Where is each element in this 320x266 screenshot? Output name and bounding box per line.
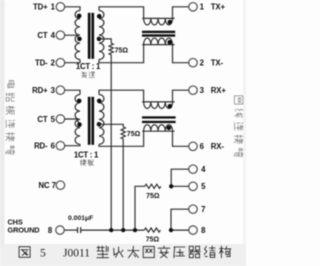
choke L2 core <box>142 116 176 123</box>
label fasong (transmit) <box>82 72 87 78</box>
transformer T1 primary winding <box>75 11 80 60</box>
svg-text:75Ω: 75Ω <box>115 48 129 55</box>
svg-text:RD+: RD+ <box>32 86 48 95</box>
node NC pin 7 (left) <box>56 181 65 190</box>
wire R1 to ground rail <box>110 55 112 230</box>
svg-text:TX-: TX- <box>211 59 224 68</box>
choke L2 bottom winding <box>142 130 174 132</box>
svg-text:CT: CT <box>37 115 47 124</box>
svg-text:J0011: J0011 <box>63 248 90 260</box>
resistor R4 75ohm <box>144 228 160 232</box>
junction pin7/8 <box>169 228 173 232</box>
L2 bottom dot <box>167 126 172 131</box>
transformer T2 core <box>88 97 94 145</box>
svg-text:1CT : 1: 1CT : 1 <box>74 151 99 160</box>
node pin 4 (right) <box>189 165 198 174</box>
svg-text:TD-: TD- <box>35 59 48 68</box>
svg-text:NC: NC <box>39 181 50 190</box>
svg-text:5: 5 <box>40 248 46 260</box>
wire RD+ to T2 primary top <box>65 90 80 94</box>
resistor R1 75ohm <box>109 43 113 55</box>
T2 secondary CT junction <box>97 122 102 127</box>
wire R3 to ground rail <box>135 186 145 230</box>
node pin 7 (right) <box>189 205 198 214</box>
wire L2 bottom to RX- <box>173 131 189 146</box>
node TD+ pin 1 (left) <box>56 3 65 12</box>
transformer T2 secondary winding <box>99 95 104 145</box>
node TX- pin 2 (right) <box>189 58 198 66</box>
svg-text:GROUND: GROUND <box>8 226 41 235</box>
T2 primary CT junction <box>77 122 82 127</box>
resistor R2 75ohm <box>121 127 125 139</box>
caption CJK text <box>97 246 109 258</box>
right page-edge gray strip <box>243 0 246 245</box>
wire L2 top to RX+ <box>173 90 189 102</box>
node RD- pin 6 (left) <box>56 141 65 150</box>
T1 primary polarity dot <box>77 14 82 19</box>
wire pin8 to R4 junction <box>171 229 189 231</box>
svg-text:TD+: TD+ <box>33 3 48 12</box>
junction pin4/5 <box>169 184 173 188</box>
L1 top dot <box>168 20 173 25</box>
label jieshou (receive) <box>80 159 86 165</box>
left page-edge gray strip <box>0 0 5 245</box>
wire T2 CT to R2 <box>99 124 123 127</box>
transformer T1 secondary winding <box>99 11 104 60</box>
node RX- pin 6 (right) <box>189 142 198 151</box>
T2 primary polarity dot <box>77 99 82 104</box>
node TX+ pin 1 (right) <box>189 3 198 12</box>
transformer T1 core <box>88 13 94 59</box>
wire CT5 to T2 primary center tap <box>65 119 80 124</box>
svg-text:RD-: RD- <box>34 142 48 151</box>
wire pin5 to R3 junction <box>171 185 189 187</box>
node CHS GROUND pin 8 (left) <box>56 226 65 235</box>
svg-text:RX+: RX+ <box>211 86 227 95</box>
wire pin4 down to R3 <box>171 169 189 186</box>
T2 secondary polarity dot <box>97 99 102 104</box>
wire TD+ to T1 primary top <box>65 7 80 11</box>
T1 secondary CT junction <box>97 37 102 42</box>
junction R3-line/rail <box>133 228 137 232</box>
ground rail <box>81 229 144 231</box>
junction R1/rail <box>109 228 113 232</box>
L1 bottom dot <box>167 40 172 45</box>
node pin 8 (right) <box>189 226 198 235</box>
node RD+ pin 3 (left) <box>56 86 65 95</box>
node TD- pin 2 (left) <box>56 58 65 66</box>
choke L1 top winding <box>142 17 174 19</box>
svg-text:75Ω: 75Ω <box>146 236 160 243</box>
wire T2 sec bottom to L2 <box>99 131 144 146</box>
caption figure number <box>19 247 30 258</box>
wire CT4 to T1 primary center tap <box>65 35 80 38</box>
capacitor C1 0.001uF <box>78 227 81 233</box>
node RX+ pin 3 (right) <box>189 86 198 95</box>
choke L2 top winding <box>142 101 174 103</box>
wire T1 sec bottom to L1 <box>99 45 144 63</box>
svg-text:RX-: RX- <box>211 142 225 151</box>
resistor R3 75ohm <box>145 184 161 188</box>
wire T2 sec top to L2 <box>99 90 144 102</box>
wire R2 to ground rail <box>122 139 124 230</box>
transformer T2 primary winding <box>75 95 80 145</box>
T1 secondary polarity dot <box>97 14 102 19</box>
T1 primary CT junction <box>77 37 82 42</box>
wire L1 bottom to TX- <box>173 45 189 63</box>
svg-text:TX+: TX+ <box>211 3 226 12</box>
svg-text:1CT : 1: 1CT : 1 <box>76 62 101 71</box>
wire L1 top to TX+ <box>173 7 189 19</box>
wire RD- to T2 primary bottom <box>65 144 80 145</box>
choke L1 core <box>142 31 175 37</box>
label network-cable side (vertical) <box>234 96 242 104</box>
svg-text:CT: CT <box>37 31 47 40</box>
L2 top dot <box>168 104 173 109</box>
svg-text:7: 7 <box>52 181 56 190</box>
wire pin8 to capacitor <box>64 229 77 231</box>
node pin 5 (right) <box>189 182 198 191</box>
svg-text:0.001μF: 0.001μF <box>68 215 93 222</box>
svg-text:75Ω: 75Ω <box>146 193 160 200</box>
wire T1 CT to R1 <box>99 39 111 43</box>
label circuit-board side (vertical) <box>8 81 15 88</box>
node CT pin 5 (left) <box>56 115 65 124</box>
junction R2/rail <box>121 228 125 232</box>
svg-text:7: 7 <box>201 205 205 214</box>
choke L1 bottom winding <box>142 44 174 46</box>
wire pin7 down to rail <box>171 209 189 230</box>
wire T1 sec top to L1 <box>99 7 144 19</box>
page background <box>0 0 246 266</box>
svg-text:75Ω: 75Ω <box>127 131 141 138</box>
wire TD- to T1 primary bottom <box>65 60 80 63</box>
node CT pin 4 (left) <box>56 31 65 40</box>
caption band background <box>0 244 246 266</box>
